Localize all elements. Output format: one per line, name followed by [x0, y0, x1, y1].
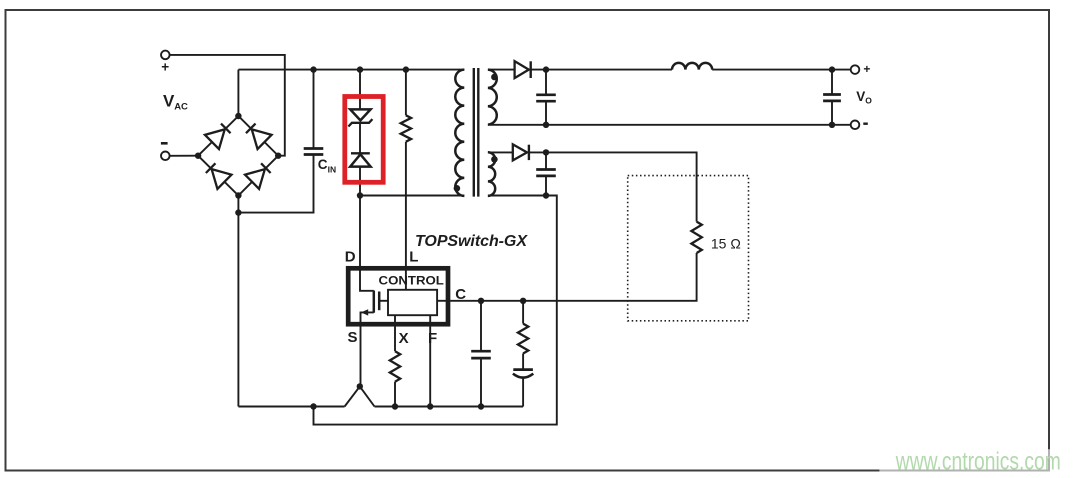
zener diode VR1 (top, in red box)	[348, 109, 372, 126]
wire between clamp diodes	[359, 124, 361, 153]
wire ground rail left	[238, 406, 344, 408]
wire secondary2 top to D7	[488, 151, 513, 153]
bridge diode D3 (bottom-left)	[204, 161, 232, 189]
svg-text:V: V	[163, 92, 175, 111]
TOPSwitch-GX package box U1	[348, 268, 448, 324]
wire C4 bottom lead	[545, 176, 547, 196]
dotted box around 15 ohm	[628, 176, 749, 321]
svg-text:O: O	[865, 95, 872, 105]
wire C5 bottom lead	[480, 358, 482, 406]
wire clamp node to primary bottom	[360, 195, 464, 197]
wire C2 bottom lead	[545, 101, 547, 125]
transformer primary polarity dot	[454, 185, 461, 192]
wire clamp bottom lead	[359, 167, 361, 196]
svg-text:S: S	[347, 329, 357, 346]
watermark background	[879, 449, 1080, 478]
wire C pin	[437, 300, 450, 302]
svg-text:AC: AC	[174, 102, 188, 113]
transformer core	[473, 68, 475, 197]
node rail / C5	[478, 403, 484, 409]
wire ground rail right	[375, 406, 524, 408]
AC input - terminal	[161, 152, 170, 161]
inductor L1	[672, 63, 712, 70]
resistor R4	[518, 324, 528, 354]
transformer T1 primary winding	[455, 70, 464, 196]
wire tent right leg	[360, 386, 375, 406]
wire R4 to C6	[522, 354, 524, 370]
capacitor C3	[823, 93, 841, 96]
wire C3 bottom lead	[831, 101, 833, 125]
bridge diode D2 (right-top)	[244, 121, 272, 149]
node DC bus / clamp	[357, 66, 363, 72]
wire drain into package	[360, 196, 374, 291]
wire gate to CONTROL	[379, 300, 388, 302]
red highlight box	[345, 97, 383, 183]
transformer secondary 1 winding	[488, 70, 497, 125]
node C4 bottom	[543, 192, 549, 198]
svg-text:15 Ω: 15 Ω	[711, 235, 741, 251]
svg-text:TOPSwitch-GX: TOPSwitch-GX	[415, 233, 528, 250]
wire R3 to ground rail	[394, 382, 396, 407]
wire - terminal to bridge left	[170, 155, 199, 157]
node C line / C5	[478, 298, 484, 304]
wire output bottom rail	[488, 124, 851, 126]
svg-text:D: D	[345, 248, 356, 265]
capacitor CIN	[304, 147, 324, 150]
rectifier diode D6	[515, 61, 531, 78]
bridge diode D4 (bottom-right)	[245, 161, 273, 189]
AC input + terminal	[161, 51, 170, 60]
resistor R1 (line sense)	[401, 115, 411, 141]
svg-text:C: C	[318, 157, 328, 172]
wire secondary2 bottom / bias return	[314, 196, 557, 425]
label - (input)	[161, 142, 168, 145]
MOSFET Q1 gate bar	[378, 292, 381, 311]
capacitor C6 (polarized)	[513, 368, 533, 371]
label - (output)	[863, 122, 868, 124]
wire X pin lead	[394, 315, 396, 351]
wire 15ohm to C pin	[450, 253, 696, 301]
node bridge left	[195, 153, 201, 159]
rectifier diode D7	[513, 144, 529, 160]
svg-text:+: +	[161, 60, 169, 75]
node DC bus / R line-sense	[403, 66, 409, 72]
wire bridge bottom return (left vertical)	[237, 196, 239, 407]
wire C4 top lead	[545, 152, 547, 169]
wire clamp top lead	[359, 70, 361, 110]
wire C5 top lead	[480, 301, 482, 351]
node C line / R4	[520, 298, 526, 304]
node source tent apex	[357, 383, 363, 389]
node rail / F	[427, 403, 433, 409]
node rail / bias return	[310, 403, 316, 409]
output + terminal	[851, 65, 860, 74]
wire R to L pin	[405, 142, 407, 290]
wire C2 top lead	[545, 70, 547, 95]
node rail / R3	[392, 403, 398, 409]
node D7 / C4	[543, 149, 549, 155]
wire + terminal to bridge right	[170, 55, 285, 156]
wire C6 bottom lead	[522, 378, 524, 407]
diode D5 (bottom, in red box)	[350, 153, 370, 166]
svg-text:V: V	[856, 89, 865, 104]
svg-text:X: X	[399, 330, 409, 347]
svg-text:CONTROL: CONTROL	[379, 273, 444, 287]
wire bridge top to DC bus	[237, 70, 239, 116]
wire R top lead	[405, 70, 407, 116]
node clamp / drain	[357, 192, 363, 198]
CONTROL block	[388, 290, 437, 315]
svg-text:IN: IN	[328, 165, 337, 175]
wire C3 top lead	[831, 70, 833, 95]
capacitor C4	[536, 168, 556, 171]
wire DC bus	[238, 69, 464, 71]
wire bridge diamond edges	[198, 116, 278, 196]
svg-text:www.cntronics.com: www.cntronics.com	[895, 447, 1061, 475]
secondary 1 polarity dot	[491, 74, 498, 81]
wire R4 top lead	[522, 301, 524, 324]
wire return to CIN bottom	[238, 155, 313, 213]
MOSFET Q1 channel bar	[373, 291, 376, 313]
node D6 / C2	[543, 66, 549, 72]
capacitor C5	[471, 350, 491, 353]
wire secondary1 top to D6	[488, 69, 515, 71]
wire source with arrow	[361, 312, 374, 386]
wire CIN top lead	[313, 70, 315, 149]
node return junction	[235, 209, 241, 215]
resistor R2 15 ohm	[691, 222, 701, 253]
secondary 2 polarity dot	[491, 156, 498, 163]
bridge diode D1 (left-top)	[205, 121, 233, 149]
capacitor C2	[536, 93, 556, 96]
wire F pin lead	[429, 315, 431, 406]
node C2 bottom	[543, 122, 549, 128]
resistor R3 (X pin)	[390, 351, 400, 382]
svg-text:L: L	[409, 248, 418, 265]
svg-text:+: +	[863, 62, 870, 76]
wire output top rail (right)	[712, 69, 851, 71]
node C3 bottom	[829, 122, 835, 128]
wire output top rail (left)	[531, 69, 672, 71]
arrow source	[361, 309, 368, 315]
transformer secondary 2 (bias) winding	[488, 152, 495, 196]
node bridge bottom	[235, 192, 241, 198]
node DC bus / CIN	[310, 66, 316, 72]
node bridge right	[275, 153, 281, 159]
output - terminal	[851, 121, 860, 130]
wire bias rail to 15ohm	[529, 152, 697, 221]
node output cap C3 top	[829, 66, 835, 72]
wire tent left leg	[345, 386, 360, 406]
node bridge top	[235, 113, 241, 119]
svg-text:C: C	[455, 286, 466, 303]
